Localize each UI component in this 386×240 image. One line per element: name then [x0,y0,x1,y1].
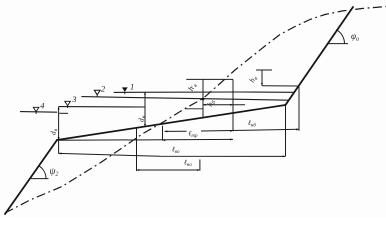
h_n dimension near embankment [256,70,299,86]
vertical d_n dimension [144,92,146,127]
level marker 3 (open) [65,94,77,108]
svg-text:1: 1 [130,82,134,92]
level marker 2 (open) [94,83,106,97]
dimension line D1 [165,129,300,133]
short tick [185,108,203,110]
label d_n [137,115,148,122]
label h_n [247,74,259,85]
svg-text:4: 4 [40,101,45,111]
left bank slope line [5,140,57,214]
tick for D4 right [199,160,201,171]
label h_b [205,98,217,109]
label h'_v [186,81,199,93]
vertical d_v dimension at entrance [58,107,60,154]
water level line 3 [59,106,145,108]
dimension line D3 [59,153,286,158]
junction dot [202,98,205,101]
angle mark upper-right [328,30,349,44]
vertical V1 [202,79,204,118]
short ledge right of vertical [59,112,68,114]
label d_v [49,128,60,135]
vertical below right ground corner [285,105,287,156]
small dim between V1 and V2 [203,104,245,106]
top reference tick [186,78,233,80]
dimension line D4 [137,169,200,171]
tick at x138 [136,129,138,172]
level marker 1 (filled) [122,82,134,95]
water level line 1 [114,91,294,93]
ground line (channel bed) [57,105,285,140]
embankment slope line [285,7,353,105]
dimension line D2 [57,139,233,142]
angle mark lower-left [31,166,49,179]
water level line 2 [81,97,289,101]
svg-text:3: 3 [71,94,76,104]
vertical V2 [232,79,234,131]
svg-text:2: 2 [101,83,106,93]
water level line 4 [20,111,57,114]
vertical below embankment toe corner [298,87,300,131]
tick at backwater start [162,126,164,141]
level marker 4 (open) [33,101,45,115]
